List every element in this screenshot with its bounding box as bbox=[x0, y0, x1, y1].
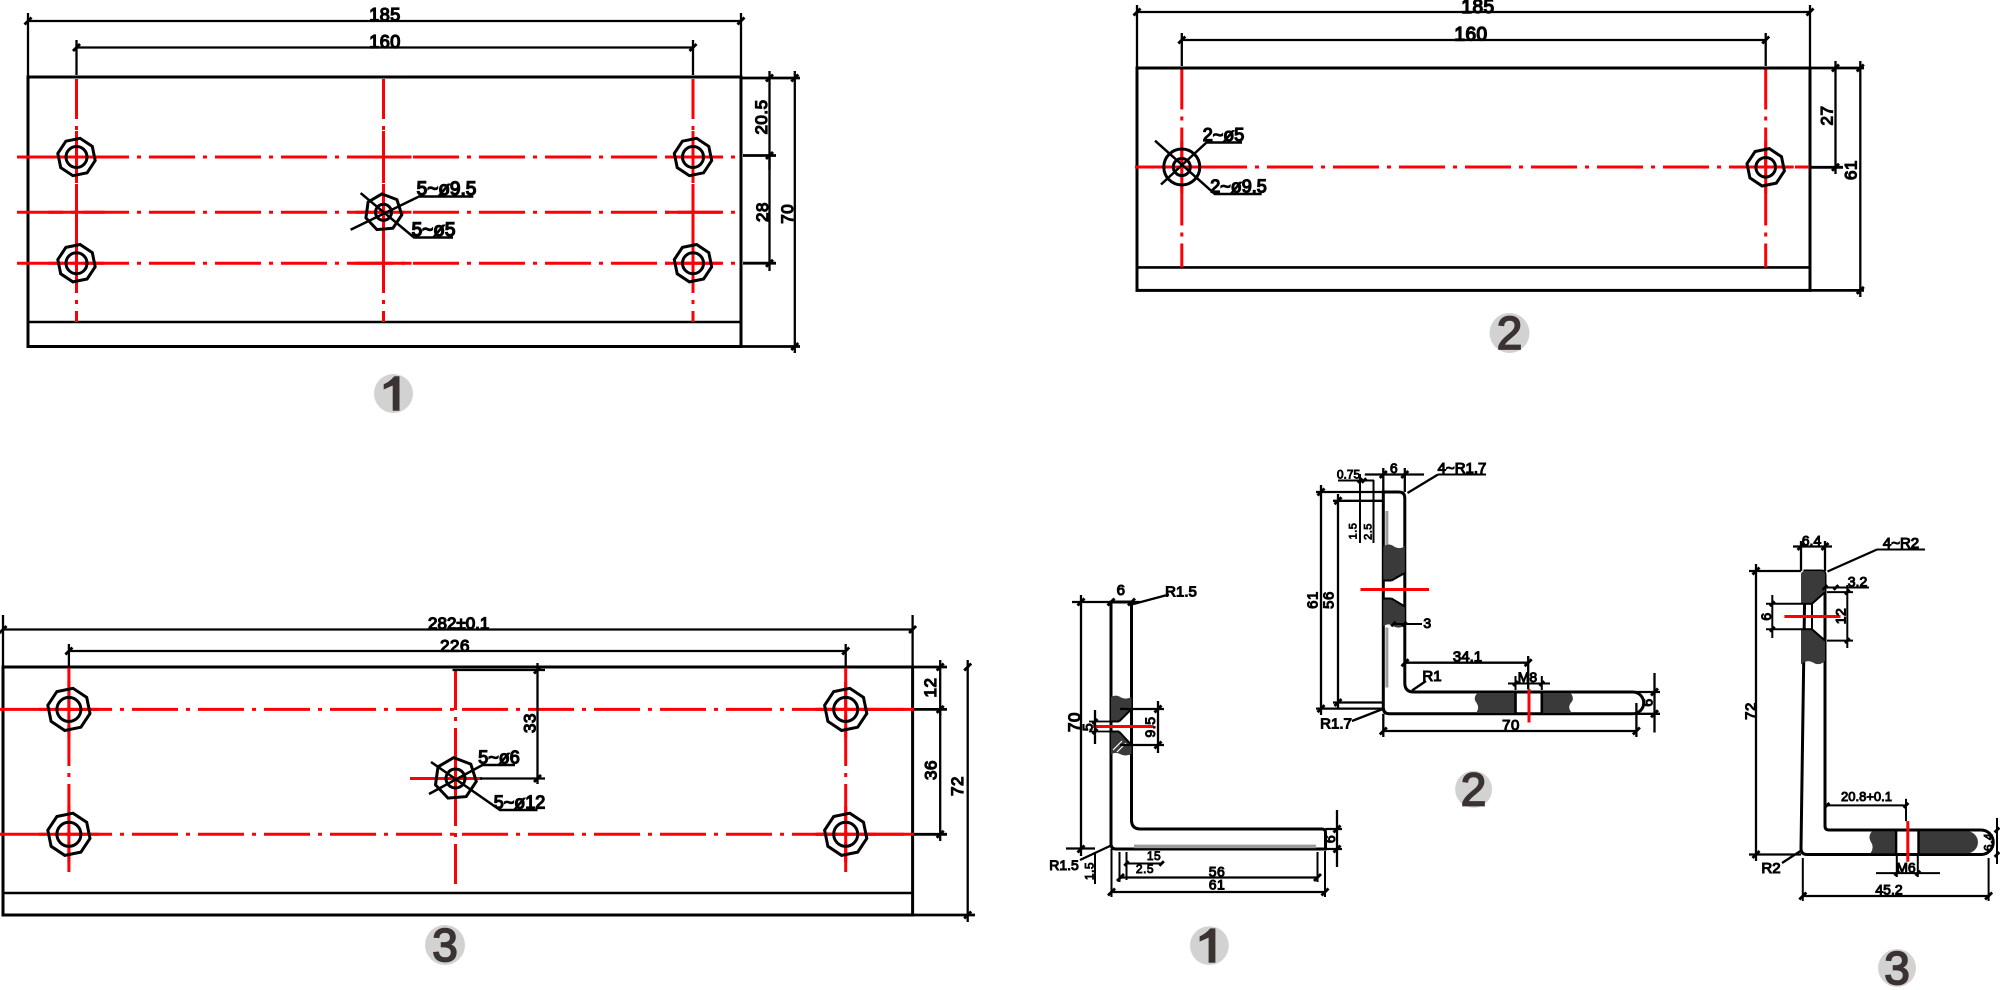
svg-text:61: 61 bbox=[1209, 877, 1226, 893]
svg-text:185: 185 bbox=[1461, 0, 1494, 18]
svg-text:2~ø5: 2~ø5 bbox=[1203, 125, 1245, 145]
svg-text:36: 36 bbox=[922, 760, 941, 780]
svg-text:185: 185 bbox=[369, 5, 401, 25]
svg-text:3: 3 bbox=[1423, 615, 1431, 631]
svg-text:6: 6 bbox=[1322, 835, 1338, 843]
svg-text:5~ø12: 5~ø12 bbox=[494, 793, 546, 813]
svg-text:160: 160 bbox=[369, 32, 401, 52]
svg-text:0.75: 0.75 bbox=[1337, 468, 1361, 482]
svg-text:R1.5: R1.5 bbox=[1165, 584, 1197, 601]
svg-text:R2: R2 bbox=[1761, 860, 1780, 877]
svg-text:2: 2 bbox=[1461, 763, 1487, 815]
svg-text:1.5: 1.5 bbox=[1348, 523, 1360, 540]
svg-text:15: 15 bbox=[1147, 849, 1161, 863]
svg-text:R1.5: R1.5 bbox=[1049, 857, 1079, 873]
svg-text:72: 72 bbox=[948, 776, 967, 796]
svg-text:160: 160 bbox=[1454, 25, 1487, 46]
svg-text:6: 6 bbox=[1758, 612, 1774, 620]
svg-text:34.1: 34.1 bbox=[1453, 649, 1482, 666]
svg-text:2.5: 2.5 bbox=[1136, 862, 1154, 876]
svg-text:2.5: 2.5 bbox=[1363, 523, 1375, 540]
svg-text:33: 33 bbox=[521, 713, 540, 733]
svg-text:226: 226 bbox=[440, 637, 470, 656]
svg-text:3: 3 bbox=[1884, 942, 1910, 990]
svg-text:5~ø9.5: 5~ø9.5 bbox=[417, 179, 477, 200]
svg-text:2~ø9.5: 2~ø9.5 bbox=[1210, 177, 1267, 197]
svg-text:70: 70 bbox=[1502, 717, 1520, 734]
svg-text:3: 3 bbox=[432, 919, 458, 971]
svg-text:27: 27 bbox=[1818, 106, 1837, 126]
svg-text:20.5: 20.5 bbox=[752, 99, 771, 134]
svg-text:2: 2 bbox=[1497, 307, 1523, 359]
svg-text:6.4: 6.4 bbox=[1981, 833, 1995, 851]
svg-text:70: 70 bbox=[778, 204, 797, 224]
svg-text:56: 56 bbox=[1320, 591, 1337, 609]
svg-text:12: 12 bbox=[1833, 608, 1849, 625]
svg-text:6: 6 bbox=[1117, 582, 1126, 599]
svg-text:6: 6 bbox=[1390, 460, 1398, 476]
svg-text:9.5: 9.5 bbox=[1142, 717, 1158, 738]
svg-text:6: 6 bbox=[1640, 698, 1656, 706]
svg-text:5: 5 bbox=[1080, 723, 1096, 731]
svg-text:12: 12 bbox=[921, 678, 940, 698]
svg-text:5~ø6: 5~ø6 bbox=[478, 748, 520, 768]
svg-text:61: 61 bbox=[1842, 160, 1861, 180]
svg-text:20.8+0.1: 20.8+0.1 bbox=[1841, 789, 1892, 804]
svg-text:5~ø5: 5~ø5 bbox=[412, 220, 456, 241]
svg-text:72: 72 bbox=[1742, 702, 1759, 720]
svg-text:61: 61 bbox=[1304, 591, 1321, 609]
svg-text:R1.7: R1.7 bbox=[1320, 716, 1352, 733]
svg-text:282±0.1: 282±0.1 bbox=[428, 614, 489, 633]
svg-text:28: 28 bbox=[753, 202, 772, 222]
svg-text:6.4: 6.4 bbox=[1802, 533, 1822, 549]
